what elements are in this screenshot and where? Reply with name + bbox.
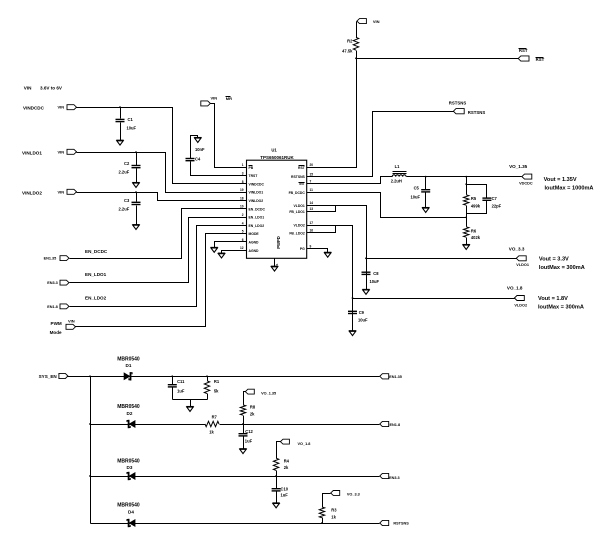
svg-text:EN3.3: EN3.3 <box>389 476 400 480</box>
svg-text:RSTSNS: RSTSNS <box>449 101 467 106</box>
svg-text:RSTSNS: RSTSNS <box>291 175 305 179</box>
svg-text:R1: R1 <box>214 379 220 384</box>
svg-text:VIN: VIN <box>68 318 75 323</box>
svg-text:C10: C10 <box>281 486 289 491</box>
svg-text:VINLDO1: VINLDO1 <box>249 191 264 195</box>
svg-text:4: 4 <box>242 221 244 225</box>
svg-text:2k: 2k <box>250 412 255 417</box>
svg-text:R6: R6 <box>471 228 477 233</box>
svg-text:Mode: Mode <box>50 330 62 335</box>
svg-text:Vout = 1.8V: Vout = 1.8V <box>538 296 568 302</box>
svg-text:VO_3.3: VO_3.3 <box>347 493 360 497</box>
svg-text:U1: U1 <box>271 148 277 153</box>
svg-text:MBR0540: MBR0540 <box>117 404 140 410</box>
svg-text:10nF: 10nF <box>195 147 205 152</box>
svg-text:PWPD: PWPD <box>276 236 281 249</box>
svg-text:15: 15 <box>310 172 314 176</box>
svg-text:VINDCDC: VINDCDC <box>249 182 265 186</box>
svg-text:VIN: VIN <box>373 19 380 24</box>
svg-text:5k: 5k <box>214 389 219 394</box>
svg-text:VO_1.35: VO_1.35 <box>509 164 528 169</box>
svg-text:10uF: 10uF <box>370 279 380 284</box>
svg-text:C1: C1 <box>128 117 134 122</box>
svg-text:VINLDO2: VINLDO2 <box>22 190 42 195</box>
svg-text:L1: L1 <box>395 164 401 169</box>
svg-text:VIN: VIN <box>24 85 32 90</box>
svg-text:499k: 499k <box>471 204 481 209</box>
svg-text:C3: C3 <box>124 198 130 203</box>
svg-text:VINDCDC: VINDCDC <box>23 106 45 111</box>
svg-text:2k: 2k <box>284 465 289 470</box>
svg-text:1: 1 <box>242 163 244 167</box>
svg-text:VLDO1: VLDO1 <box>293 204 304 208</box>
svg-text:D1: D1 <box>126 363 132 368</box>
svg-text:VIN: VIN <box>58 149 65 154</box>
svg-text:VDCDC: VDCDC <box>519 182 533 186</box>
svg-text:IoutMax = 300mA: IoutMax = 300mA <box>539 265 585 271</box>
svg-text:EN_LDO2: EN_LDO2 <box>85 295 107 300</box>
svg-text:20: 20 <box>310 163 314 167</box>
svg-text:VO_1.8: VO_1.8 <box>507 286 523 291</box>
svg-text:FB_LDO1: FB_LDO1 <box>289 210 305 214</box>
svg-text:C8: C8 <box>373 271 379 276</box>
svg-text:RST: RST <box>298 166 306 170</box>
svg-text:PWM: PWM <box>51 321 62 326</box>
svg-text:EN_LDO2: EN_LDO2 <box>249 224 265 228</box>
svg-text:17: 17 <box>310 221 314 225</box>
svg-text:PB: PB <box>249 166 254 170</box>
svg-text:R7: R7 <box>212 415 218 420</box>
svg-text:C9: C9 <box>359 310 365 315</box>
svg-text:EN1.8: EN1.8 <box>47 305 58 309</box>
svg-text:EN3.3: EN3.3 <box>47 281 58 285</box>
svg-text:MODE: MODE <box>249 232 260 236</box>
svg-text:Vout = 3.3V: Vout = 3.3V <box>539 256 569 262</box>
svg-text:C2: C2 <box>124 161 130 166</box>
svg-text:SYS_EN: SYS_EN <box>39 374 58 379</box>
svg-text:1k: 1k <box>331 515 336 520</box>
svg-text:1uF: 1uF <box>245 439 253 444</box>
svg-text:C5: C5 <box>414 186 420 191</box>
svg-text:IoutMax = 300mA: IoutMax = 300mA <box>538 304 584 310</box>
svg-text:VINLDO1: VINLDO1 <box>22 150 42 155</box>
svg-text:2.2uF: 2.2uF <box>119 206 130 211</box>
svg-text:13: 13 <box>310 207 314 211</box>
svg-text:1uF: 1uF <box>177 389 185 394</box>
svg-text:R5: R5 <box>471 196 477 201</box>
svg-text:PG: PG <box>300 247 305 251</box>
svg-text:MBR0540: MBR0540 <box>117 503 140 509</box>
svg-text:12: 12 <box>240 246 244 250</box>
svg-text:1k: 1k <box>209 429 214 434</box>
svg-text:VLDO1: VLDO1 <box>516 263 529 267</box>
svg-text:R3: R3 <box>331 507 337 512</box>
svg-text:AGND: AGND <box>249 249 260 253</box>
svg-text:22pF: 22pF <box>492 204 502 209</box>
svg-text:VO_3.3: VO_3.3 <box>509 247 525 252</box>
svg-text:C12: C12 <box>245 429 253 434</box>
svg-text:10uF: 10uF <box>358 317 368 322</box>
svg-text:MBR0540: MBR0540 <box>117 356 140 362</box>
svg-text:TPS650061RUK: TPS650061RUK <box>260 155 294 160</box>
svg-text:IoutMax = 1000mA: IoutMax = 1000mA <box>545 186 594 192</box>
svg-text:C11: C11 <box>177 379 185 384</box>
svg-text:VIN: VIN <box>211 96 218 101</box>
svg-text:TRST: TRST <box>249 174 259 178</box>
svg-text:1uF: 1uF <box>281 493 289 498</box>
svg-text:D3: D3 <box>127 465 133 470</box>
svg-text:EN_LDO1: EN_LDO1 <box>249 216 265 220</box>
svg-text:402k: 402k <box>471 235 481 240</box>
svg-text:R4: R4 <box>284 459 290 464</box>
svg-text:10uF: 10uF <box>410 194 420 199</box>
svg-text:EN_LDO1: EN_LDO1 <box>85 272 107 277</box>
svg-text:14: 14 <box>310 201 314 205</box>
svg-text:RST: RST <box>536 57 545 62</box>
svg-text:C7: C7 <box>492 196 498 201</box>
svg-text:EN_DCDC: EN_DCDC <box>85 249 108 254</box>
svg-text:D2: D2 <box>127 411 133 416</box>
svg-text:2.2uF: 2.2uF <box>119 170 130 175</box>
svg-text:3.6V to 6V: 3.6V to 6V <box>40 85 63 90</box>
svg-text:RSTSNS: RSTSNS <box>468 110 486 115</box>
svg-text:EN1.35: EN1.35 <box>44 256 57 260</box>
svg-text:R8: R8 <box>250 405 256 410</box>
svg-text:VIN: VIN <box>58 189 65 194</box>
svg-text:RSTSNS: RSTSNS <box>393 521 409 525</box>
svg-text:EN1.35: EN1.35 <box>389 375 402 379</box>
svg-text:10uF: 10uF <box>127 125 137 130</box>
svg-text:2.2uH: 2.2uH <box>391 178 402 183</box>
svg-text:2: 2 <box>242 213 244 217</box>
svg-text:18: 18 <box>240 196 244 200</box>
svg-text:FB_LDO2: FB_LDO2 <box>289 231 305 235</box>
svg-text:C4: C4 <box>195 156 201 161</box>
svg-text:FB_DCDC: FB_DCDC <box>289 191 306 195</box>
svg-text:MBR0540: MBR0540 <box>117 459 140 465</box>
svg-text:VLDO2: VLDO2 <box>293 224 304 228</box>
svg-text:VO_1.8: VO_1.8 <box>298 442 311 446</box>
svg-text:VO_1.35: VO_1.35 <box>261 391 276 395</box>
svg-text:EN1.8: EN1.8 <box>390 423 401 427</box>
svg-text:EN_DCDC: EN_DCDC <box>249 207 266 211</box>
svg-text:VLDO2: VLDO2 <box>514 303 527 307</box>
svg-text:VIN: VIN <box>58 105 65 110</box>
svg-text:VINLDO2: VINLDO2 <box>249 199 264 203</box>
svg-text:D4: D4 <box>128 509 134 514</box>
svg-text:19: 19 <box>240 188 244 192</box>
svg-text:AGND: AGND <box>249 241 260 245</box>
svg-text:47.5k: 47.5k <box>342 48 353 53</box>
svg-text:Vout = 1.35V: Vout = 1.35V <box>544 177 577 183</box>
svg-text:11: 11 <box>310 188 314 192</box>
svg-text:R2: R2 <box>347 39 353 44</box>
svg-text:RST: RST <box>519 48 528 53</box>
